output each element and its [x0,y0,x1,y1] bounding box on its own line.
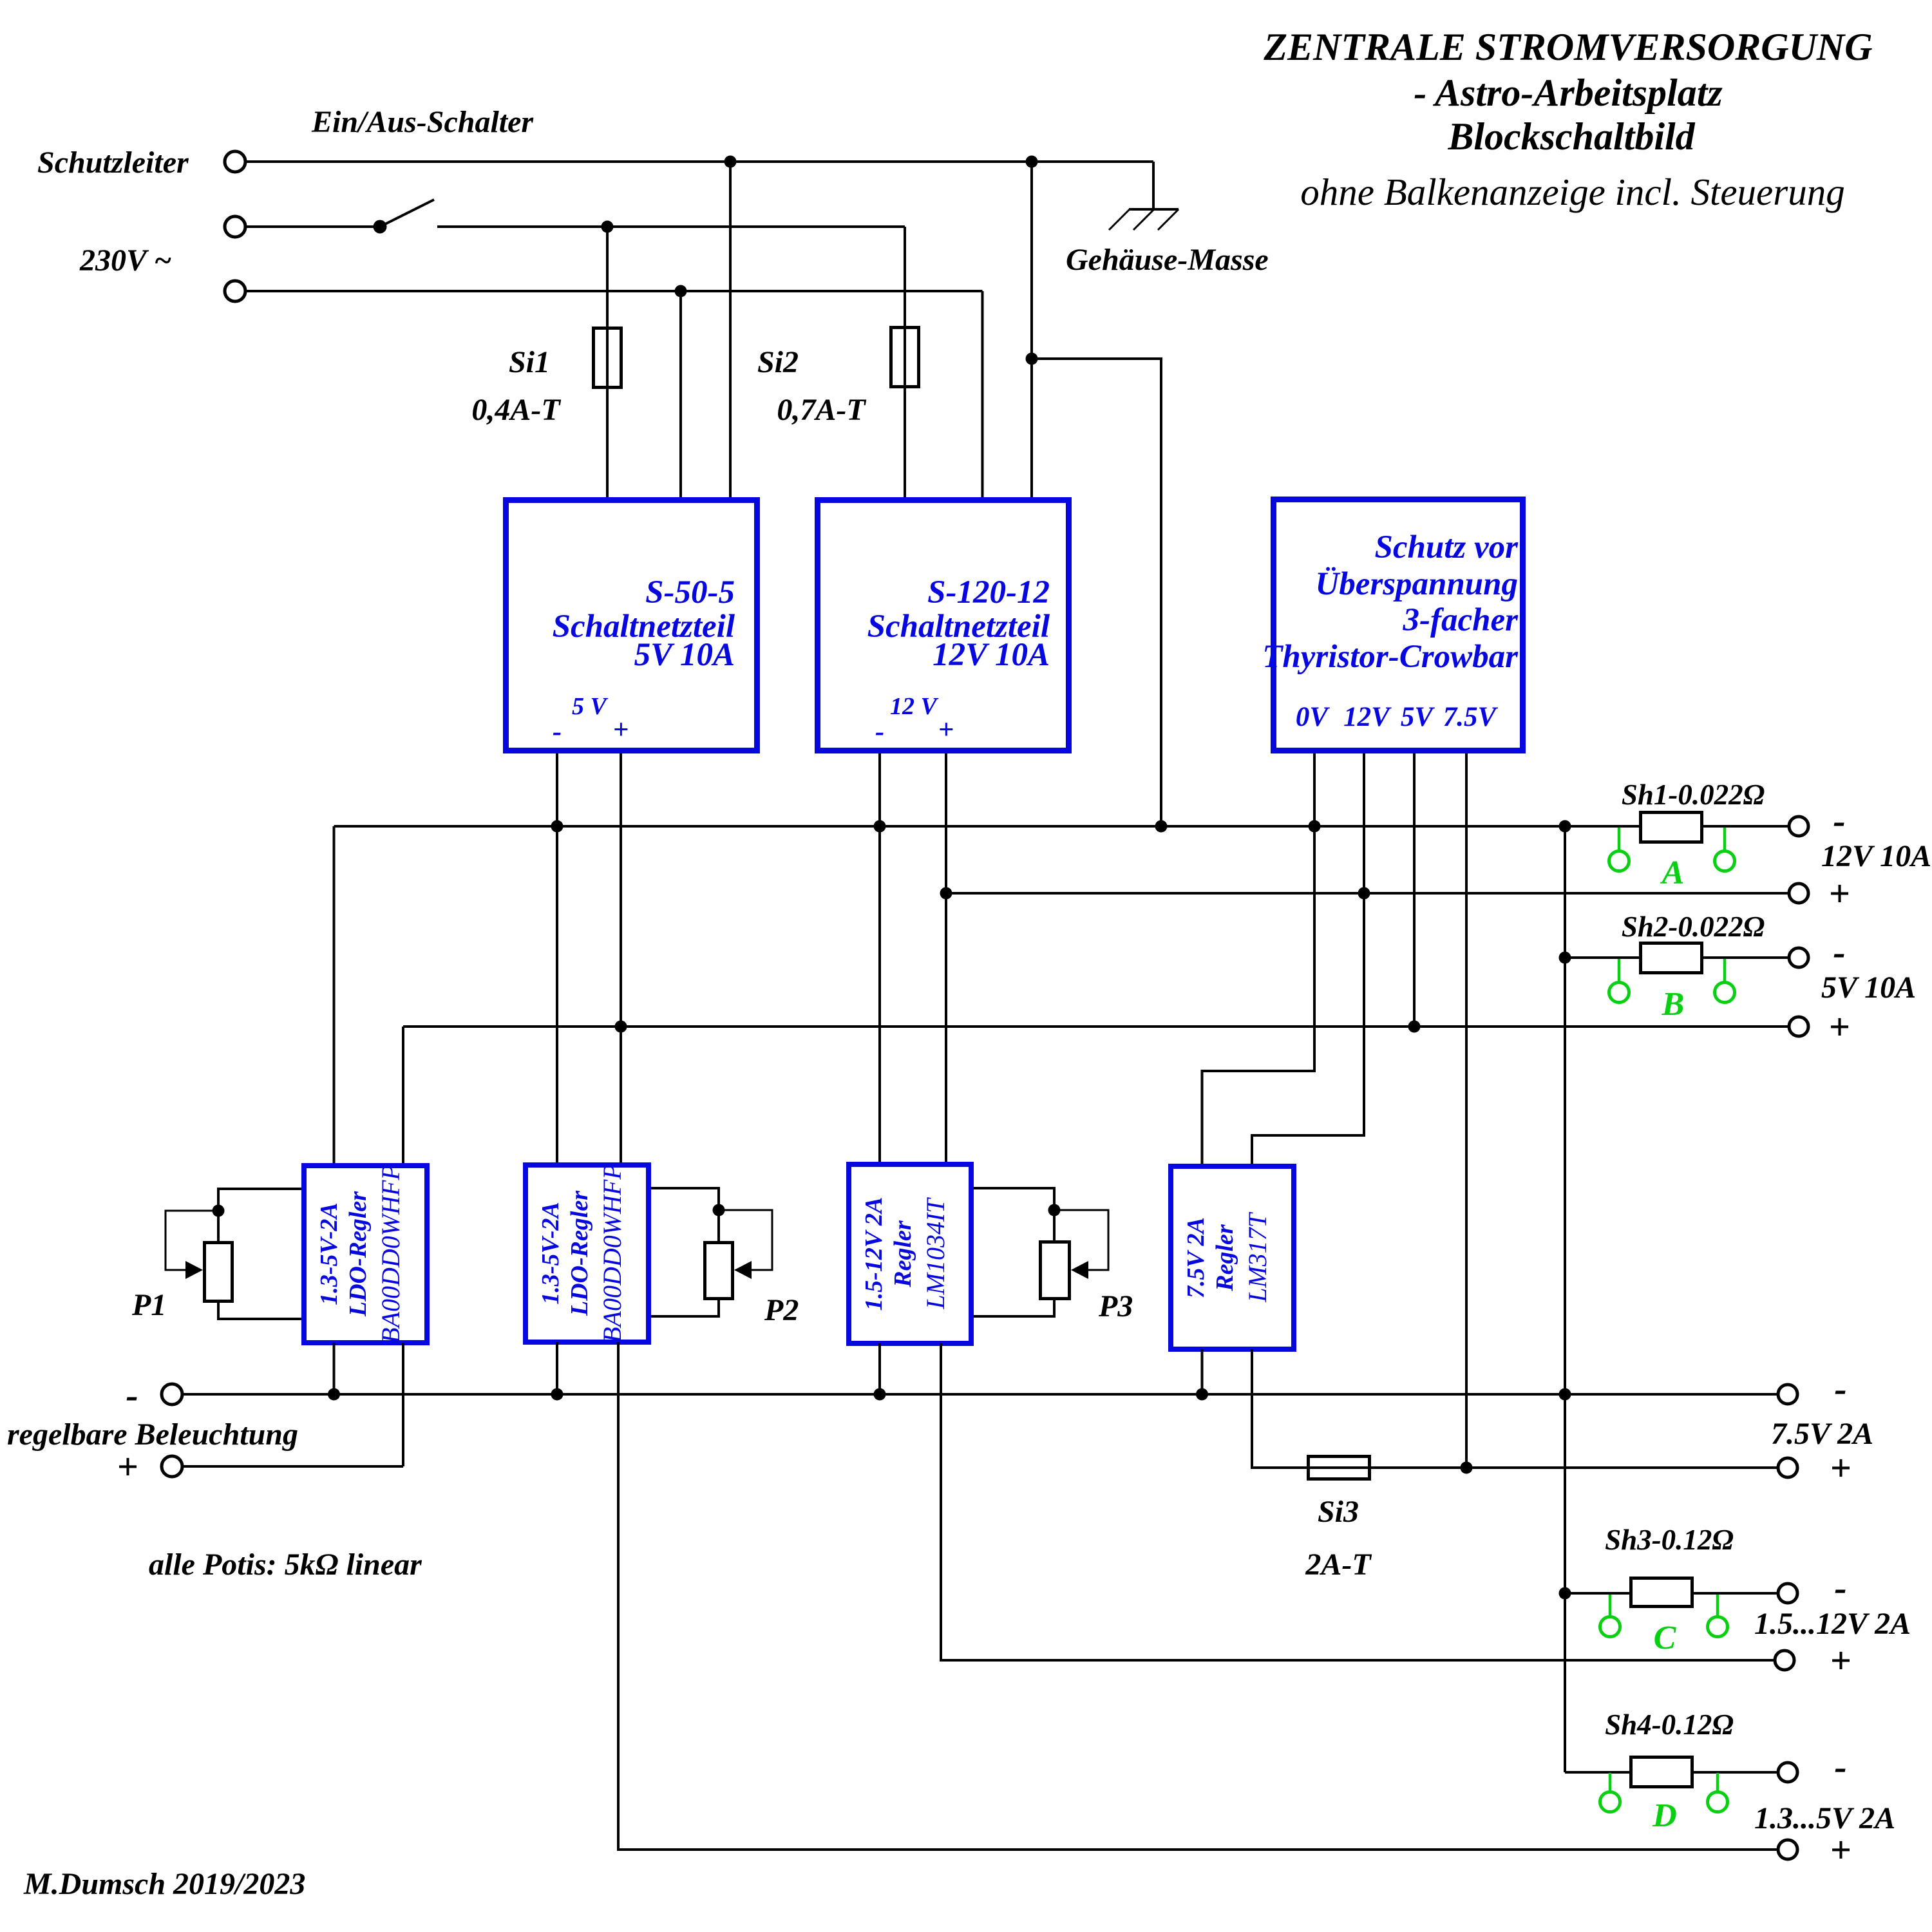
wire 5V corner to LDO1 [402,1027,404,1164]
svg-text:+: + [1830,1447,1851,1489]
svg-text:-: - [1834,1368,1846,1410]
wire L after switch [437,225,905,228]
svg-text:-: - [1834,1746,1846,1788]
wire 12V plus bus [946,892,1789,895]
svg-text:-: - [875,717,884,747]
wire 5V plus bus [403,1025,1789,1028]
svg-text:1.3-5V-2A: 1.3-5V-2A [316,1202,343,1305]
svg-text:-: - [126,1374,138,1416]
wire PE into box1 [729,162,732,497]
wire crowbar 0V pin [1202,753,1315,1166]
node box2 minus 0V bus [874,820,886,833]
svg-text:ohne Balkenanzeige incl. Steue: ohne Balkenanzeige incl. Steuerung [1300,171,1844,213]
svg-text:+: + [1830,1829,1851,1871]
node L-Si1 [601,221,614,233]
terminal L input [225,216,245,237]
svg-text:7.5V 2A: 7.5V 2A [1182,1217,1209,1298]
wire Sh4 line right [1694,1771,1777,1774]
potentiometer P2 [651,1188,772,1316]
wire LM317 out minus [1201,1349,1204,1394]
ground Gehäuse-Masse [1109,162,1179,230]
wire box1 plus down [620,753,622,1163]
svg-text:Schutzleiter: Schutzleiter [37,146,189,180]
wire 0V corner to LDO1 [333,826,336,1164]
power supply box2 S-120-12 [818,500,1069,751]
svg-text:+: + [938,715,954,745]
wire LDO1 out plus [402,1343,404,1466]
shunt Sh2 [1641,943,1702,973]
fuse Si2 [891,328,919,387]
terminal lamp minus [162,1384,182,1405]
svg-text:-: - [1833,931,1845,973]
wire crowbar 7.5V pin [1465,753,1468,1468]
terminal lamp plus [162,1456,182,1477]
meter taps C [1600,1595,1728,1637]
svg-text:12V 10A: 12V 10A [1821,839,1931,873]
svg-text:Si3: Si3 [1318,1495,1359,1529]
node PE branch [1026,353,1038,365]
wire 0V rail vertical [1564,826,1566,1772]
wire N line [245,290,983,292]
svg-text:+: + [1828,1006,1850,1048]
node box1 plus 5V bus [615,1021,627,1033]
wire box2 plus down [945,753,947,1162]
svg-text:0V: 0V [1296,702,1331,732]
node box2 plus 12V bus [940,887,952,900]
crowbar box3 Schutz vor Überspannung [1274,500,1523,751]
wire PE branch to 0V bus [1032,359,1161,826]
potentiometer P1 [166,1189,301,1319]
svg-text:alle Potis: 5kΩ linear: alle Potis: 5kΩ linear [149,1548,422,1582]
svg-text:P2: P2 [764,1293,799,1327]
svg-text:1.5-12V 2A: 1.5-12V 2A [860,1197,887,1311]
svg-text:Regler: Regler [889,1220,916,1288]
node crowbar 5V at bus [1408,1021,1421,1033]
wire 12V minus bus right [1703,825,1789,828]
wire Sh3 line right [1694,1592,1777,1595]
svg-text:D: D [1652,1797,1677,1834]
meter taps D [1600,1773,1728,1812]
wire L into box2 via Si2 [904,227,906,497]
node crowbar 7.5V at Si3 line [1461,1462,1473,1474]
svg-text:Überspannung: Überspannung [1315,566,1518,602]
node PE-crowbar [1026,156,1038,168]
svg-text:Si2: Si2 [757,345,799,379]
svg-text:12V: 12V [1343,702,1392,732]
terminal 12V plus [1789,884,1808,903]
terminal N input [225,281,245,301]
svg-text:5V: 5V [1401,702,1435,732]
wire lamp bus 7.5V minus [183,1393,1777,1396]
svg-text:+: + [1830,1640,1851,1681]
power supply box1 S-50-5 [506,500,757,751]
node box1 minus 0V bus [551,820,563,833]
svg-text:Regler: Regler [1211,1224,1238,1292]
wire L to switch [245,225,380,228]
node switch pivot [374,220,387,234]
svg-text:230V ~: 230V ~ [79,243,172,278]
regulator LM317 box [1171,1166,1294,1349]
shunt Sh3 [1631,1578,1692,1607]
node LM317 minus lamp bus [1196,1388,1208,1401]
node LDO1 minus lamp bus [328,1388,340,1401]
wire N into box2 [981,291,984,497]
wire box1 minus down [556,753,558,1163]
wire Si1 branch into box1 [606,227,609,497]
svg-text:5V 10A: 5V 10A [634,637,735,673]
wire 5V minus line to Sh2 [1565,956,1639,959]
wire box2 minus down [878,753,881,1162]
svg-text:M.Dumsch 2019/2023: M.Dumsch 2019/2023 [23,1867,305,1901]
wire 12V minus bus [334,825,1640,828]
svg-text:7.5V: 7.5V [1443,702,1499,732]
svg-text:0,7A-T: 0,7A-T [777,393,866,427]
node PE at 0V bus [1155,820,1168,833]
svg-text:S-50-5: S-50-5 [645,574,735,611]
meter taps A [1609,828,1735,871]
svg-text:1.5...12V 2A: 1.5...12V 2A [1754,1607,1911,1641]
wire LM1034 out plus to C+ [941,1343,1774,1660]
fuse Si1 [594,328,621,388]
node 0V rail top [1559,820,1571,833]
node LDO2 minus lamp bus [551,1388,563,1401]
svg-text:BA00DD0WHFP: BA00DD0WHFP [376,1164,405,1343]
terminal 5V plus [1789,1017,1808,1036]
svg-text:Ein/Aus-Schalter: Ein/Aus-Schalter [311,105,534,139]
terminal 7.5V plus [1778,1458,1797,1477]
terminal PE input [225,151,245,172]
svg-text:A: A [1660,855,1685,891]
svg-text:-: - [1833,800,1845,842]
node crowbar 12V at bus [1358,887,1370,900]
wire PE into box2 [1030,162,1033,497]
terminal 5V minus [1789,948,1808,967]
svg-text:- Astro-Arbeitsplatz: - Astro-Arbeitsplatz [1414,71,1723,114]
node 0V rail Sh3 [1559,1587,1571,1600]
svg-text:1.3...5V 2A: 1.3...5V 2A [1754,1801,1895,1835]
node LM1034 minus lamp bus [874,1388,886,1401]
svg-text:BA00DD0WHFP: BA00DD0WHFP [598,1164,627,1343]
wire PE line [245,160,1153,163]
meter taps B [1609,959,1735,1003]
svg-text:P1: P1 [131,1288,166,1322]
svg-text:-: - [553,717,562,747]
regulator LDO2 box [526,1165,649,1342]
svg-text:Si1: Si1 [509,345,550,379]
svg-text:B: B [1662,986,1685,1023]
terminal 12V minus [1789,817,1808,836]
svg-text:2A-T: 2A-T [1305,1548,1372,1582]
svg-text:P3: P3 [1098,1289,1133,1323]
potentiometer P3 [974,1188,1108,1316]
terminal C plus [1775,1651,1794,1670]
svg-text:+: + [1828,873,1850,914]
svg-text:+: + [117,1446,138,1488]
svg-text:C: C [1654,1620,1677,1656]
terminal C minus [1778,1584,1797,1603]
regulator LM1034 box [849,1164,971,1343]
node 0V rail Sh2 [1559,952,1571,964]
node N-box1 [675,285,687,298]
wire Sh3 line [1565,1592,1631,1595]
node PE-box1 [724,156,737,168]
shunt Sh4 [1631,1757,1692,1787]
svg-text:Sh1-0.022Ω: Sh1-0.022Ω [1622,779,1765,811]
wire N into box1 [679,291,682,497]
svg-text:LM317T: LM317T [1243,1211,1272,1303]
svg-text:Sh3-0.12Ω: Sh3-0.12Ω [1605,1524,1734,1556]
svg-text:LDO-Regler: LDO-Regler [566,1190,593,1316]
svg-text:12 V: 12 V [890,693,939,720]
svg-text:S-120-12: S-120-12 [927,574,1050,611]
svg-text:+: + [613,715,629,745]
wire lamp plus [183,1465,403,1468]
wire LDO1 out minus [333,1343,336,1394]
wire Sh4 line [1565,1771,1631,1774]
svg-text:LDO-Regler: LDO-Regler [345,1191,372,1317]
node 0V rail lamp bus [1559,1388,1571,1401]
terminal D plus [1778,1840,1797,1859]
svg-text:5V 10A: 5V 10A [1821,971,1916,1005]
shunt Sh1 [1641,813,1702,842]
svg-text:12V 10A: 12V 10A [933,637,1050,673]
node crowbar 0V at bus [1309,820,1321,833]
svg-text:1.3-5V-2A: 1.3-5V-2A [537,1202,564,1304]
terminal D minus [1778,1763,1797,1782]
svg-text:Sh2-0.022Ω: Sh2-0.022Ω [1622,911,1765,943]
regulator LDO1 box [304,1166,427,1343]
svg-text:Gehäuse-Masse: Gehäuse-Masse [1066,243,1269,277]
svg-text:ZENTRALE STROMVERSORGUNG: ZENTRALE STROMVERSORGUNG [1263,26,1872,68]
svg-text:5 V: 5 V [572,693,609,720]
wire LM1034 out minus [878,1343,881,1394]
wire LDO2 out minus [556,1342,558,1394]
svg-text:0,4A-T: 0,4A-T [471,393,561,427]
wire LM317 out plus [1252,1349,1777,1468]
svg-text:Blockschaltbild: Blockschaltbild [1447,115,1695,158]
fuse Si3 [1309,1457,1370,1479]
svg-text:Thyristor-Crowbar: Thyristor-Crowbar [1262,639,1519,675]
wire LDO2 out plus to D+ [618,1342,1777,1850]
svg-text:-: - [1834,1567,1846,1609]
wire 5V minus line right [1703,956,1789,959]
svg-text:LM1034IT: LM1034IT [921,1197,950,1310]
svg-text:regelbare Beleuchtung: regelbare Beleuchtung [7,1417,298,1452]
svg-text:Schutz vor: Schutz vor [1375,529,1519,565]
wire crowbar 5V pin [1413,753,1416,1027]
svg-text:Sh4-0.12Ω: Sh4-0.12Ω [1605,1709,1734,1741]
terminal 7.5V minus [1778,1385,1797,1404]
switch lever Ein/Aus-Schalter [380,200,434,227]
wire crowbar 12V pin [1252,753,1364,1166]
svg-text:3-facher: 3-facher [1403,602,1519,638]
svg-text:7.5V 2A: 7.5V 2A [1771,1417,1873,1451]
